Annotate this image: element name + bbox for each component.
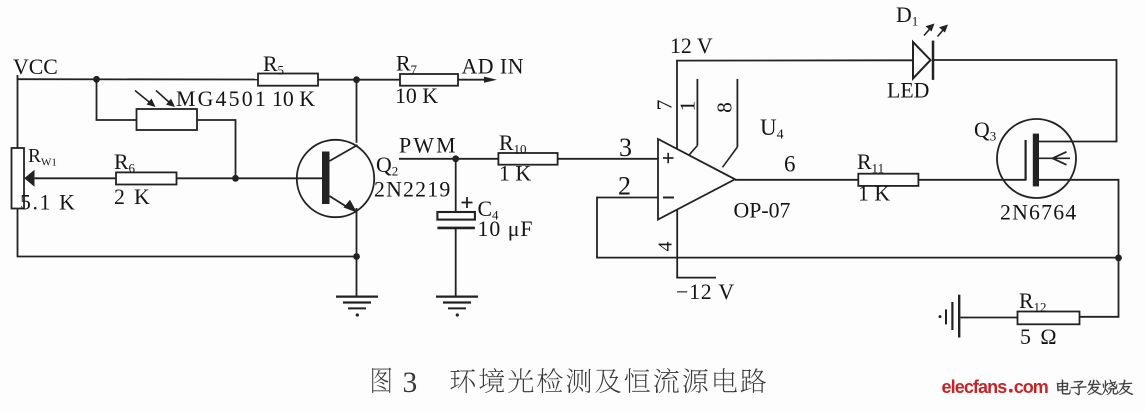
wire R12 to ground (961, 317, 1018, 319)
Q3 drain wire (1039, 141, 1117, 143)
ground below Q2 (336, 297, 378, 317)
svg-text:1 K: 1 K (858, 182, 890, 206)
label MG4501 10 K (176, 87, 315, 111)
label R12 (1019, 289, 1047, 315)
value 10 uF (478, 217, 534, 241)
potentiometer RW1 (12, 148, 39, 209)
svg-text:MG4501: MG4501 (176, 87, 268, 111)
resistor R7 (400, 74, 458, 86)
wire wiper to Q2 base (36, 177, 323, 179)
resistor R12 (1018, 312, 1080, 325)
svg-text:5 Ω: 5 Ω (1020, 325, 1059, 349)
caption figure title (372, 368, 391, 393)
svg-text:VCC: VCC (13, 55, 58, 79)
label AD IN (462, 55, 524, 79)
ground below C4 (436, 297, 478, 317)
value 5.1 K (20, 191, 76, 215)
label -12 V (676, 280, 735, 304)
transistor Q3 circle (997, 119, 1076, 198)
pin 7 label rotated (653, 99, 677, 110)
label Q3 (974, 118, 996, 144)
svg-text:elecfans: elecfans (942, 377, 1008, 397)
photoresistor MG4501 wires (96, 79, 137, 120)
label Q2 (376, 153, 398, 179)
node VCC (13, 55, 58, 79)
resistor R5 (258, 74, 318, 86)
svg-text:com: com (1014, 377, 1048, 397)
transistor Q2 circle (297, 140, 374, 217)
svg-text:2: 2 (618, 172, 631, 201)
label C4 (478, 197, 500, 223)
wire top rail VCC to R5 (17, 78, 258, 80)
pin 6 label (784, 152, 796, 177)
label R11 (857, 150, 884, 176)
label R6 (114, 150, 136, 176)
svg-text:10 K: 10 K (395, 84, 438, 108)
svg-text:10 K: 10 K (272, 87, 315, 111)
photoresistor MG4501 (137, 109, 198, 130)
op-amp U1 triangle (658, 139, 735, 220)
wire bottom rail (17, 209, 358, 257)
value 1 K of R10 (499, 162, 531, 186)
label R10 (499, 131, 527, 157)
svg-text:OP-07: OP-07 (734, 199, 791, 223)
svg-text:LED: LED (887, 79, 929, 103)
wire emitter down (356, 208, 358, 297)
svg-text:PWM: PWM (399, 134, 458, 158)
caption characters (450, 368, 766, 393)
svg-text:10 μF: 10 μF (478, 217, 534, 241)
Q3 channel bar (1033, 134, 1039, 187)
pin 8 stub (723, 79, 738, 167)
svg-text:2N6764: 2N6764 (1000, 201, 1077, 225)
transistor Q2 emitter with arrow (330, 196, 358, 213)
diode D1 LED (913, 41, 933, 80)
svg-text:6: 6 (784, 152, 796, 177)
pin 2 label (618, 172, 631, 201)
pin 6 output wire (735, 179, 858, 181)
value 10 K of R7 (395, 84, 438, 108)
transistor Q2 base bar (322, 152, 330, 205)
wire pin2 feedback loop (596, 197, 1118, 258)
wire 12V rail to LED (676, 59, 912, 61)
svg-text:12 V: 12 V (670, 34, 713, 58)
pin 3 label (619, 133, 632, 162)
junction emitter bottom rail (353, 253, 360, 260)
resistor R11 (858, 174, 918, 186)
watermark elecfans.com (942, 377, 1048, 397)
light arrows MG4501 (135, 91, 175, 108)
svg-text:−12 V: −12 V (676, 280, 735, 304)
LED light arrows (924, 24, 948, 37)
svg-text:8: 8 (713, 102, 737, 113)
svg-text:1: 1 (676, 101, 700, 112)
pin 8 label rotated (713, 102, 737, 113)
plus sign C4 (462, 197, 473, 208)
wire source down to R12 (1080, 316, 1120, 318)
resistor R6 (116, 172, 177, 184)
value 5 ohm (1020, 325, 1059, 349)
wire VCC left vertical (17, 75, 19, 149)
wire R10 to pin3 (558, 158, 659, 160)
junction PWM C4 (452, 155, 459, 162)
svg-text:3: 3 (403, 367, 418, 399)
wire AD IN output arrow (458, 77, 497, 83)
value 2 K (114, 185, 152, 209)
wire PWM to R10 (399, 158, 498, 160)
wire R11 to gate (918, 179, 1025, 181)
wire collector up (356, 80, 358, 143)
svg-text:3: 3 (619, 133, 632, 162)
wire pin7 to 12V (676, 61, 678, 150)
transistor Q2 collector (330, 145, 358, 161)
ground rotated at R12 (939, 295, 960, 338)
Q3 body arrow (1039, 152, 1070, 165)
svg-text:4: 4 (655, 242, 677, 252)
label U4 (760, 115, 784, 143)
value 1 K of R11 (858, 182, 890, 206)
svg-text:1 K: 1 K (499, 162, 531, 186)
svg-text:2 K: 2 K (114, 185, 152, 209)
Q3 gate bar (1024, 140, 1026, 181)
pin 1 label rotated (676, 101, 700, 112)
label 12 V (670, 34, 713, 58)
pin 4 label rotated (655, 242, 677, 252)
capacitor C4 (437, 159, 475, 297)
wire LED cathode to drain corner (933, 59, 1117, 141)
label OP-07 (734, 199, 791, 223)
svg-text:AD IN: AD IN (462, 55, 524, 79)
pin 1 stub (689, 79, 698, 155)
value 2N6764 (1000, 201, 1077, 225)
value 2N2219 (374, 178, 451, 202)
pin 4 wire to -12V (676, 210, 716, 278)
label RW1 (28, 146, 57, 169)
label R5 (263, 52, 284, 78)
label D1 (896, 3, 918, 29)
label LED (887, 79, 929, 103)
junction top rail to MG4501 (93, 76, 100, 83)
resistor R10 (498, 153, 557, 165)
svg-text:2N2219: 2N2219 (374, 178, 451, 202)
plus input marker (663, 153, 674, 163)
junction source feedback (1115, 255, 1122, 262)
junction collector node (353, 76, 360, 83)
wire R5 to junction to R7 (318, 79, 400, 81)
svg-text:5.1 K: 5.1 K (20, 191, 76, 215)
wire MG4501 right leg (197, 119, 236, 178)
minus input marker (663, 197, 674, 199)
watermark chinese (1057, 380, 1133, 396)
svg-text:7: 7 (653, 99, 677, 110)
junction MG4501 to base wire (232, 175, 239, 182)
label R7 (396, 52, 418, 78)
Q3 source wire (1039, 179, 1119, 317)
node PWM (399, 134, 458, 158)
caption number 3 (403, 367, 418, 399)
